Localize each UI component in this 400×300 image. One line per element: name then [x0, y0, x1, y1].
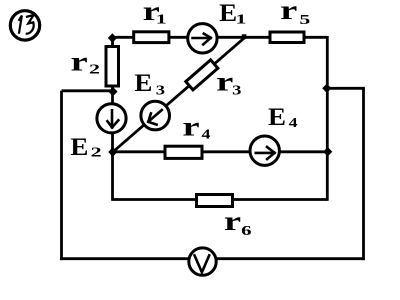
node E2 (left middle junction) — [108, 147, 117, 156]
node C (right branch junction) — [322, 84, 331, 93]
wire bottom inner (r6 branch) — [113, 198, 328, 201]
svg-text:5: 5 — [299, 13, 310, 28]
resistor R1 — [134, 32, 169, 43]
svg-text:E: E — [70, 132, 88, 161]
svg-text:E: E — [268, 102, 286, 131]
svg-text:3: 3 — [232, 84, 241, 99]
svg-text:1: 1 — [156, 12, 167, 27]
node A (top-left junction) — [108, 33, 117, 42]
svg-text:4: 4 — [202, 128, 211, 143]
resistor R5 — [270, 32, 304, 43]
svg-text:r: r — [280, 0, 297, 25]
svg-text:r: r — [216, 67, 233, 97]
node F (diagonal top junction, small) — [242, 34, 247, 39]
svg-text:r: r — [224, 206, 241, 236]
resistor R4 — [165, 146, 202, 158]
node B (below R2) — [108, 87, 117, 96]
svg-text:3: 3 — [156, 84, 165, 99]
EMF source E1 circle — [188, 24, 217, 53]
voltmeter V circle — [189, 248, 216, 275]
EMF source E3 arrow — [148, 110, 162, 125]
voltmeter V glyph — [194, 254, 210, 272]
wire diagonal (r3 / E3 branch) — [113, 37, 245, 152]
node D (E4 right junction) — [323, 147, 332, 156]
svg-text:6: 6 — [241, 224, 251, 239]
wire left link — [62, 89, 114, 92]
wire left outer vertical — [60, 91, 63, 260]
svg-text:r: r — [71, 47, 88, 77]
EMF source E2 arrow — [107, 110, 118, 127]
wire top bus — [112, 36, 328, 39]
svg-text:2: 2 — [89, 63, 100, 78]
badge digit 3 — [26, 15, 34, 34]
wire right outer vertical — [362, 88, 365, 260]
EMF source E2 circle — [97, 104, 126, 133]
svg-text:4: 4 — [289, 116, 298, 131]
wire middle (r4 / E4 branch) — [113, 150, 328, 153]
resistor R2 — [106, 47, 119, 87]
EMF source E4 circle — [250, 136, 279, 165]
EMF source E3 circle — [141, 101, 170, 130]
svg-text:r: r — [182, 112, 199, 142]
problem number badge circle 13 — [10, 11, 39, 40]
EMF source E1 arrow — [193, 34, 211, 45]
resistor R3 (rotated on diagonal) — [186, 60, 218, 90]
resistor R6 — [197, 195, 233, 207]
wire bottom outer — [60, 257, 365, 260]
svg-text:E: E — [134, 68, 152, 97]
badge digit 1 — [19, 15, 22, 33]
svg-text:2: 2 — [91, 146, 102, 161]
wire left vertical (r2 / E2 branch) — [111, 37, 114, 201]
svg-text:1: 1 — [235, 12, 246, 27]
wire branch to outer right — [327, 87, 365, 90]
EMF source E4 arrow — [256, 147, 275, 159]
wire right inner vertical — [326, 36, 329, 201]
